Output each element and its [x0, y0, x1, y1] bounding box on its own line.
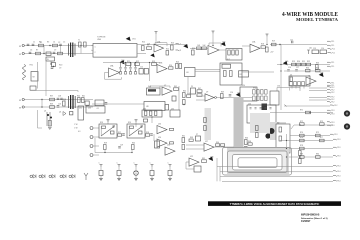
wire wire U17 output: [214, 146, 234, 148]
signal loop rect outer: [223, 148, 292, 176]
resistor R15: [232, 50, 234, 55]
svg-text:R32: R32: [307, 61, 310, 63]
resistor R75: [316, 134, 321, 137]
component crystal Y1: [48, 121, 51, 127]
power tick bypass 3: [135, 165, 138, 167]
gray panel module: [270, 122, 286, 140]
svg-text:R31: R31: [302, 61, 305, 63]
component C31 box: [52, 63, 56, 67]
gray wash behind loop: [227, 147, 289, 174]
wire wire rail B right: [277, 64, 330, 66]
svg-text:C6: C6: [30, 50, 32, 52]
connector PL2 pin 5: [327, 98, 331, 101]
op-amp U22: [189, 158, 199, 166]
svg-text:R46: R46: [187, 93, 190, 95]
svg-text:M2: M2: [277, 122, 279, 124]
capacitor C29: [118, 147, 121, 148]
component Z4 box: [95, 100, 104, 106]
svg-text:R38: R38: [63, 99, 66, 101]
component jumper JU1: [307, 50, 310, 54]
wire wire pin group 2b: [309, 99, 327, 101]
node A3: [80, 45, 81, 46]
svg-text:+5V: +5V: [270, 52, 274, 54]
svg-text:U6: U6: [308, 75, 310, 77]
wire stubs below Z3: [292, 86, 304, 89]
svg-text:CR3: CR3: [222, 42, 225, 44]
connector PL1 pin 8: [327, 84, 331, 87]
resistor R21: [126, 63, 131, 66]
diode CR2: [184, 45, 188, 48]
svg-text:C17: C17: [296, 67, 299, 69]
diode CR7: [237, 93, 241, 96]
svg-text:PL3: PL3: [331, 122, 334, 124]
resistor R31: [302, 63, 306, 66]
ground bypass 3: [134, 178, 138, 180]
svg-text:C5: C5: [63, 42, 65, 44]
resistor R82: [299, 151, 302, 156]
power +5V stub A: [212, 31, 215, 33]
svg-text:U10: U10: [242, 85, 245, 87]
svg-text:LINE: LINE: [97, 39, 102, 41]
diode CR13 small: [72, 175, 75, 179]
svg-text:W: W: [19, 108, 22, 110]
xfmr dot: [215, 97, 217, 99]
resistor R52: [155, 111, 157, 116]
connector PL2 pin 1: [327, 86, 331, 89]
svg-text:R16: R16: [192, 48, 195, 50]
resistor R34: [306, 69, 311, 72]
resistor R67: [245, 147, 248, 152]
wire U1-B feedback: [209, 43, 221, 47]
resistor R58: [146, 134, 150, 136]
svg-text:U8: U8: [146, 106, 148, 108]
connector PL1 pin 7: [327, 82, 331, 85]
filter FL3 dark label: [148, 89, 156, 91]
footer black banner: [208, 201, 341, 206]
svg-text:R21: R21: [127, 61, 130, 63]
capacitor C18: [57, 98, 60, 99]
line interface box Z1: [93, 44, 137, 58]
wire wire pot 2 stub: [135, 122, 137, 128]
resistor R13: [192, 50, 195, 55]
svg-text:R2: R2: [39, 42, 41, 44]
wire wire rail C mid: [92, 103, 144, 105]
wire wire vert D mid: [153, 134, 155, 141]
wire wire bypass 3: [135, 167, 137, 170]
wire wire vertical D left: [38, 110, 43, 128]
tick C bottom: [285, 105, 287, 107]
terminal circle A2: [22, 52, 24, 54]
wire wire D drop 3: [131, 150, 133, 153]
svg-text:U14: U14: [143, 108, 146, 110]
junction dot 16: [104, 152, 105, 153]
wire wire pot2 bar: [128, 126, 130, 136]
svg-text:U12: U12: [79, 107, 82, 109]
svg-text:Z7: Z7: [196, 134, 198, 136]
resistor R51: [150, 111, 152, 116]
ground bypass 5: [168, 178, 172, 180]
svg-text:R55: R55: [128, 122, 131, 124]
svg-text:R63: R63: [190, 137, 193, 139]
capacitor C24: [229, 95, 232, 96]
wire wire pot 1 stub: [107, 122, 109, 125]
connector PL1 pin 6: [327, 65, 331, 68]
svg-text:R40: R40: [77, 95, 80, 97]
junction dot 8: [125, 62, 126, 63]
svg-text:4-WIRE WIB MODULE: 4-WIRE WIB MODULE: [282, 12, 338, 18]
connector PL3 pin 5: [330, 133, 334, 136]
wire wire rail A2: [25, 53, 94, 55]
svg-text:R58: R58: [146, 132, 149, 134]
capacitor C33 block: [150, 171, 154, 176]
resistor R59: [104, 145, 107, 150]
resistor R6: [84, 42, 87, 47]
svg-text:U20: U20: [248, 103, 251, 105]
capacitor C0: [27, 44, 30, 45]
capacitor C30 block: [99, 171, 103, 176]
hybrid box U10: [240, 87, 257, 101]
svg-text:C20: C20: [58, 103, 61, 105]
op-amp U6: [306, 77, 316, 85]
hybrid sub box 2: [239, 71, 249, 77]
capacitor C1: [32, 44, 35, 45]
resistor R87 on band: [204, 126, 207, 131]
wire wire stub U1-A: [155, 32, 157, 44]
junction dot 6: [149, 62, 150, 63]
junction dot 1: [280, 64, 281, 65]
svg-text:R66: R66: [245, 138, 248, 140]
potentiometer R53 wiper: [101, 126, 114, 136]
svg-text:R: R: [180, 50, 182, 52]
op-amp U9: [205, 94, 214, 101]
svg-text:PL4: PL4: [337, 166, 340, 168]
diode CR9 small: [33, 175, 36, 179]
wire wire A opamp out2: [219, 49, 226, 51]
svg-text:R80: R80: [316, 154, 319, 156]
svg-text:2: 2: [95, 52, 96, 54]
wire wire long rail 1: [217, 166, 333, 168]
svg-text:R71: R71: [300, 109, 303, 111]
transistor Q1 wires: [47, 112, 50, 126]
svg-text:PL1: PL1: [331, 66, 334, 68]
wire wire B double 2: [195, 70, 220, 72]
svg-text:C: C: [117, 163, 119, 165]
wire wire vertical C right: [178, 86, 180, 110]
capacitor C32 polarized: [134, 171, 139, 176]
wire wire rail B right row2: [284, 70, 330, 72]
svg-text:PL1: PL1: [332, 49, 335, 51]
resistor R81: [202, 160, 207, 163]
svg-text:W: W: [19, 46, 22, 48]
svg-text:CR7: CR7: [237, 93, 240, 95]
wire wire rail E3: [287, 156, 334, 158]
svg-text:R53: R53: [100, 122, 103, 124]
wire wire long rail 2: [220, 171, 333, 173]
capacitor C34 block: [168, 171, 172, 176]
svg-text:R44: R44: [183, 90, 186, 92]
capacitor comb C10-C13: [119, 63, 136, 72]
wire wire rail D4b: [291, 125, 333, 129]
resistor R85: [170, 142, 174, 144]
ic U11 dark: [262, 104, 268, 111]
junction dot 14: [309, 112, 310, 113]
svg-text:Z4: Z4: [97, 108, 99, 110]
connector PL2 pin 3: [327, 91, 331, 94]
svg-text:PL1: PL1: [331, 45, 334, 47]
resistor R11: [197, 47, 202, 50]
capacitor C32 plates: [134, 172, 138, 174]
ic U14 box: [142, 110, 162, 117]
connector J3 circle 4: [90, 154, 93, 157]
wire wire A-mid: [137, 44, 186, 46]
wire wire bus vertical right: [286, 134, 288, 174]
ic U21 dark half: [269, 128, 275, 134]
component Z8 box: [194, 166, 201, 172]
wire U3 feedback: [105, 73, 122, 80]
wire bracket C4: [277, 88, 300, 92]
svg-text:U3B: U3B: [159, 63, 163, 65]
svg-text:U17: U17: [205, 141, 208, 143]
resistor R68: [248, 143, 252, 145]
wire wire J3 stub 1: [93, 127, 99, 129]
svg-text:R76: R76: [300, 137, 303, 139]
ic U18 dark blob: [265, 133, 270, 138]
diode CR10 below U1A: [151, 54, 154, 57]
svg-text:R22: R22: [136, 61, 139, 63]
svg-text:C14: C14: [321, 48, 324, 50]
connector PL3 pin 6: [333, 138, 337, 141]
resistor R42: [174, 88, 179, 91]
op-amp U1-B: [208, 46, 219, 55]
svg-text:R33: R33: [316, 63, 319, 65]
resistor R17: [261, 46, 266, 48]
capacitor C28: [150, 134, 153, 135]
wire wire long C bottom: [284, 105, 330, 107]
varistor RV1 coil chain: [23, 65, 26, 80]
wire wire bypass gnd 1: [100, 176, 102, 179]
node C1: [41, 99, 42, 100]
svg-text:PL1: PL1: [332, 52, 335, 54]
wire wire bus vertical C5: [280, 86, 282, 110]
component Z5 box: [191, 88, 196, 94]
wire wire bypass gnd 3: [135, 176, 137, 179]
svg-text:1: 1: [95, 47, 96, 49]
resistor R5: [79, 42, 82, 47]
resistor R89 mid: [256, 133, 259, 138]
wire wire rail C2: [25, 106, 94, 108]
diode CR11 small: [52, 175, 55, 179]
junction dot 4: [286, 148, 287, 149]
capacitor C31 block: [117, 171, 121, 176]
connector J3 circle 2: [90, 136, 93, 139]
svg-text:R57: R57: [118, 132, 121, 134]
svg-text:U16: U16: [158, 137, 161, 139]
wire wire bypass 1: [100, 167, 102, 170]
svg-text:R25: R25: [176, 62, 179, 64]
resistor R49: [221, 94, 224, 99]
svg-text:U2A: U2A: [252, 41, 256, 44]
resistor R56 inside: [130, 126, 134, 128]
wire wire vertical left B: [37, 62, 39, 89]
resistor R48: [197, 94, 202, 97]
svg-text:U16: U16: [158, 124, 161, 126]
test point TP3: [49, 175, 51, 177]
junction dot 10: [135, 62, 136, 63]
op-amp U16-B: [157, 139, 167, 147]
junction dot 11: [212, 45, 213, 46]
component C25 box: [70, 112, 73, 115]
connector PL3 pin 8: [333, 155, 337, 158]
svg-text:R20: R20: [59, 65, 62, 67]
op-amp U17: [204, 143, 214, 151]
capacitor row codec: [250, 108, 272, 109]
resistor R73: [320, 123, 325, 126]
svg-text:PL3: PL3: [337, 147, 340, 149]
resistor R18: [266, 47, 269, 52]
wire wire long rail 3: [220, 176, 333, 178]
svg-text:C16: C16: [288, 67, 291, 69]
wire wire pin group 1b: [309, 90, 327, 92]
wire wire vertical B mid: [149, 62, 151, 81]
svg-text:PL4: PL4: [337, 180, 340, 182]
transformer T1 windings: [69, 44, 76, 56]
resistor R47: [197, 90, 202, 93]
resistor R88 mid: [256, 126, 259, 131]
ic U15 box: [170, 110, 180, 117]
component pot1 sub: [111, 131, 115, 134]
diode CR1: [127, 37, 131, 40]
capacitor C5: [292, 41, 293, 44]
wire wire U9 input b: [196, 99, 205, 101]
wire wire bypass 5: [169, 167, 171, 170]
svg-text:10K: 10K: [197, 45, 201, 47]
svg-text:C W: C W: [74, 128, 78, 130]
svg-text:R35: R35: [316, 67, 319, 69]
wire wire rail B: [103, 62, 160, 64]
svg-text:PL1: PL1: [331, 62, 334, 64]
resistor R41: [82, 98, 85, 103]
resistor network RN1: [253, 90, 268, 101]
svg-text:R49: R49: [221, 92, 224, 94]
wire wire U14 down: [151, 117, 153, 123]
ic U19 dark: [263, 147, 268, 156]
resistor R36: [290, 77, 292, 82]
resistor R9: [166, 51, 169, 56]
wire wire J3 stub 2: [93, 136, 99, 138]
component C23 box: [172, 96, 176, 101]
connector PL3 pin 3: [327, 121, 331, 124]
wire wire bypass gnd 4: [151, 176, 153, 179]
svg-text:RN1: RN1: [253, 88, 256, 90]
transformer T2 core: [71, 95, 73, 109]
wire wire rail E1: [280, 140, 333, 142]
capacitor C16: [287, 70, 290, 71]
svg-text:a: a: [92, 45, 93, 47]
resistor R2: [53, 44, 58, 47]
resistor R80: [316, 156, 321, 159]
svg-text:C2: C2: [58, 42, 60, 44]
potentiometer R53 box: [99, 124, 117, 138]
resistor R19: [272, 43, 277, 46]
svg-text:JU1: JU1: [309, 47, 312, 49]
resistor R79: [300, 156, 305, 159]
resistor R64: [216, 144, 220, 146]
svg-text:R39: R39: [50, 103, 53, 105]
wire wire rail C1: [25, 99, 94, 101]
resistor R23: [152, 63, 157, 66]
filter box FL2: [226, 49, 242, 61]
svg-text:R29: R29: [292, 61, 295, 63]
svg-text:C: C: [134, 163, 136, 165]
terminal circle C1: [22, 98, 24, 100]
wire wire pin group 1a: [309, 87, 327, 89]
svg-text:CR6: CR6: [320, 73, 323, 75]
svg-text:R64: R64: [216, 142, 219, 144]
network box Z3: [289, 76, 310, 86]
codec U20 box: [247, 105, 276, 123]
svg-text:R7: R7: [36, 50, 38, 52]
wire wire bypass gnd 2: [118, 176, 120, 179]
capacitor C15 block: [144, 69, 148, 75]
svg-text:PL2: PL2: [334, 105, 337, 107]
test point TP1: [30, 175, 32, 177]
svg-text:R23: R23: [152, 61, 155, 63]
diode CR6: [320, 73, 324, 76]
svg-text:R74: R74: [300, 132, 303, 134]
signal loop rect inner: [238, 158, 277, 168]
resistor R76: [300, 139, 305, 142]
connector J2 pin 2: [176, 49, 180, 52]
resistor R39: [50, 106, 55, 109]
wire wire A opamp mid: [190, 48, 208, 50]
node B1: [50, 63, 51, 64]
svg-text:MODEL TTN8867A: MODEL TTN8867A: [296, 18, 339, 22]
power tick bypass 5: [169, 165, 172, 167]
terminal circle A1: [22, 44, 24, 46]
resistor R27: [224, 71, 227, 77]
fuse F1 box: [46, 52, 51, 55]
resistor R8: [147, 47, 152, 50]
svg-text:R75: R75: [316, 132, 319, 134]
resistor R22: [135, 63, 140, 66]
connector PL2 pin 4: [327, 95, 331, 98]
resistor R16: [236, 50, 238, 55]
resistor R24: [169, 67, 174, 69]
resistor R83: [299, 159, 302, 164]
resistor R32: [307, 63, 311, 66]
resistor R30: [297, 63, 301, 66]
resistor R70: [279, 136, 282, 141]
resistor R37: [50, 98, 55, 101]
wire wire bypass 4: [151, 167, 153, 170]
wire wire drop C rails: [41, 100, 43, 108]
wire wire rail A far right: [270, 44, 327, 46]
resistor R84: [170, 128, 174, 130]
svg-text:R59: R59: [104, 143, 107, 145]
connector J3 circle 3: [90, 145, 93, 148]
wire wire rail D4a: [270, 112, 333, 114]
svg-text:R60: R60: [132, 143, 135, 145]
wire wire rail E2: [287, 148, 334, 150]
resistor R3: [36, 52, 41, 55]
svg-text:PL2: PL2: [331, 96, 334, 98]
svg-text:6.3: 6.3: [78, 131, 80, 133]
resistor R62: [182, 145, 185, 150]
svg-text:PL3: PL3: [337, 156, 340, 158]
svg-text:FL: FL: [47, 59, 49, 61]
wire U7 feedback: [150, 86, 170, 88]
wire wire D drop 1: [94, 138, 96, 153]
